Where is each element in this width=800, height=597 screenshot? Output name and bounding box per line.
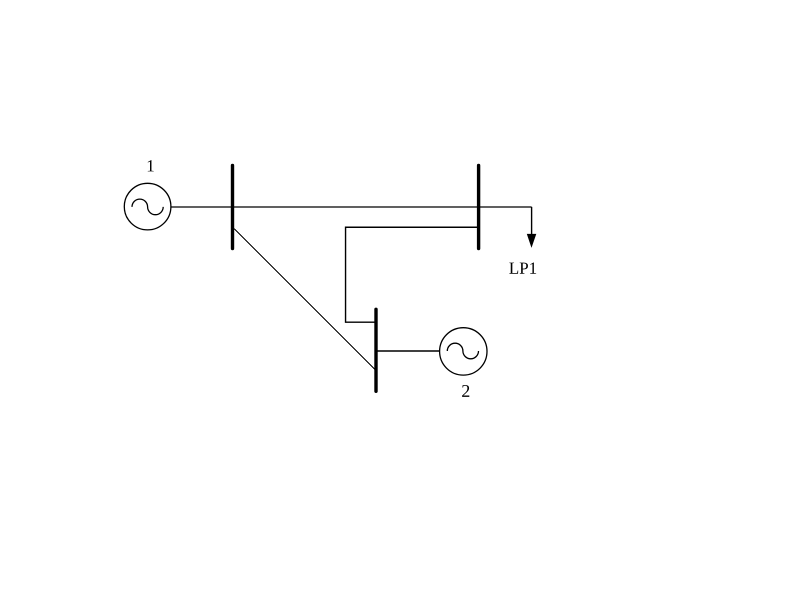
label 2 xyxy=(462,385,469,397)
wire G1 to bus 1 to bus 2 to load tap xyxy=(171,206,531,208)
label 1 xyxy=(148,160,154,171)
busbar 3 xyxy=(374,309,377,391)
busbar 1 xyxy=(231,166,234,249)
busbar 2 xyxy=(477,166,480,249)
wire bus 2 to bus 3 (L-shaped) xyxy=(346,227,477,322)
load arrow LP1 xyxy=(527,234,537,248)
generator G1 xyxy=(124,183,171,230)
wire bus 1 to bus 3 (diagonal) xyxy=(234,229,374,370)
generator G2 xyxy=(440,328,487,375)
generator G2 sine symbol xyxy=(447,343,478,359)
label LP1 xyxy=(509,262,536,273)
wire bus 3 to G2 xyxy=(376,350,439,352)
wire load drop xyxy=(531,207,533,236)
generator G1 sine symbol xyxy=(132,199,163,215)
